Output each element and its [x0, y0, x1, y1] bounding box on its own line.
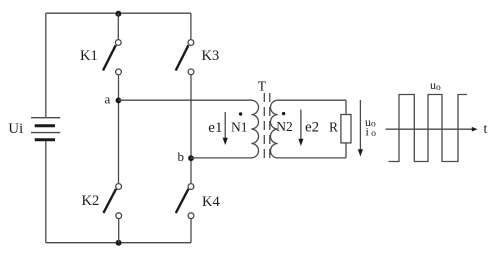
arrow e2	[298, 110, 303, 147]
svg-text:a: a	[105, 92, 111, 107]
wire top rail to K1	[117, 13, 119, 39]
wire bottom rail	[46, 242, 191, 244]
arrow uo io	[358, 100, 363, 157]
wire secondary bottom	[278, 157, 346, 159]
switch K1	[103, 40, 121, 75]
switch K4	[176, 184, 194, 219]
svg-text:K3: K3	[202, 48, 220, 64]
svg-text:K2: K2	[82, 193, 100, 209]
polarity dot N2	[282, 112, 285, 115]
node a	[116, 98, 122, 104]
junction dot top rail	[115, 11, 121, 17]
wire R to secondary bottom	[345, 143, 347, 158]
svg-text:t: t	[484, 121, 488, 136]
battery Ui	[31, 118, 60, 140]
wire top rail	[46, 12, 191, 14]
wire secondary top	[278, 99, 346, 101]
svg-text:R: R	[329, 120, 338, 135]
svg-text:N2: N2	[276, 119, 293, 134]
resistor R	[341, 115, 351, 143]
transformer primary winding N1	[251, 100, 258, 158]
junction dot bottom rail	[116, 240, 122, 246]
waveform axis t	[386, 127, 478, 132]
wire left vertical upper (top rail to battery)	[45, 13, 47, 117]
wire top rail to K3	[190, 13, 192, 39]
svg-text:b: b	[178, 149, 185, 164]
svg-text:Ui: Ui	[8, 121, 23, 137]
wire node b to primary bottom	[191, 157, 252, 159]
svg-text:K4: K4	[202, 194, 220, 210]
node b	[188, 155, 194, 161]
polarity dot N1	[239, 112, 242, 115]
transformer secondary winding N2	[270, 100, 277, 158]
wire K2 to bottom rail	[118, 219, 120, 243]
svg-text:K1: K1	[80, 48, 98, 64]
transformer core	[264, 93, 270, 162]
svg-text:e2: e2	[305, 120, 319, 136]
arrow e1	[223, 112, 228, 145]
switch K2	[103, 184, 121, 219]
wire secondary top to R	[345, 100, 347, 114]
wire node a to primary top	[118, 99, 251, 101]
wire K3 to K4 through node b	[190, 75, 192, 183]
svg-text:uo: uo	[430, 78, 441, 93]
svg-text:N1: N1	[231, 120, 248, 135]
wire left vertical lower (battery to bottom rail)	[45, 140, 47, 243]
wire K4 to bottom rail	[190, 219, 192, 243]
waveform square wave uo	[389, 95, 468, 162]
svg-text:e1: e1	[208, 120, 222, 136]
switch K3	[176, 40, 194, 75]
svg-text:T: T	[258, 79, 267, 94]
wire K1 to K2 through node a	[118, 75, 120, 183]
